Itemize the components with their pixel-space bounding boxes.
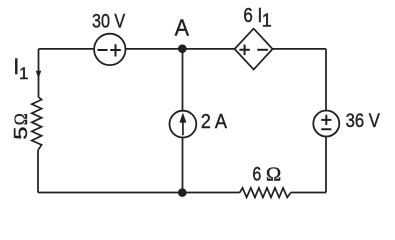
svg-text:Ω: Ω (12, 113, 32, 125)
resistor R1 5 ohm vertical zigzag (32, 97, 42, 150)
arrow inside 2A source (182, 120, 184, 136)
polarity plus inside 30V source (110, 44, 121, 56)
current source I2 2A circle (170, 111, 197, 138)
arrow I1 on left wire (36, 71, 42, 79)
wire left side lower vertical (37, 150, 39, 192)
svg-text:2 A: 2 A (201, 111, 228, 133)
wire diamond to top-right corner (273, 48, 326, 50)
svg-text:30 V: 30 V (92, 11, 125, 33)
node A junction dot (178, 44, 187, 53)
wire top-left horizontal segment (39, 48, 95, 50)
polarity plus inside diamond (239, 45, 250, 56)
dependent source U1 diamond 6I1 (235, 29, 273, 70)
wire node A to diamond (183, 48, 235, 50)
svg-text:36 V: 36 V (346, 110, 380, 132)
wire right side lower vertical (325, 137, 327, 193)
plus-minus marks inside 36V source (321, 115, 331, 130)
wire bottom-left segment (38, 192, 240, 194)
wire node A down to 2A source (182, 49, 184, 111)
wire left side upper vertical (38, 49, 40, 97)
wire 30V source to node A (125, 48, 182, 50)
wire bottom-right segment (291, 192, 326, 194)
voltage source V1 30V circle (94, 34, 125, 65)
wire right side upper vertical (325, 49, 327, 111)
svg-text:6 I: 6 I (243, 5, 262, 27)
svg-text:1: 1 (262, 11, 272, 31)
svg-text:Ω: Ω (266, 163, 281, 185)
svg-text:1: 1 (19, 64, 28, 83)
svg-text:6: 6 (252, 163, 261, 185)
voltage source V2 36V circle (313, 111, 339, 137)
polarity minus inside 30V source (97, 49, 107, 51)
polarity minus inside diamond (257, 49, 268, 51)
wire 2A source down to bottom node (182, 137, 184, 192)
resistor R2 6 ohm horizontal zigzag (240, 188, 291, 198)
svg-text:5: 5 (11, 127, 31, 140)
svg-text:A: A (175, 14, 190, 40)
bottom node junction dot (178, 188, 187, 197)
